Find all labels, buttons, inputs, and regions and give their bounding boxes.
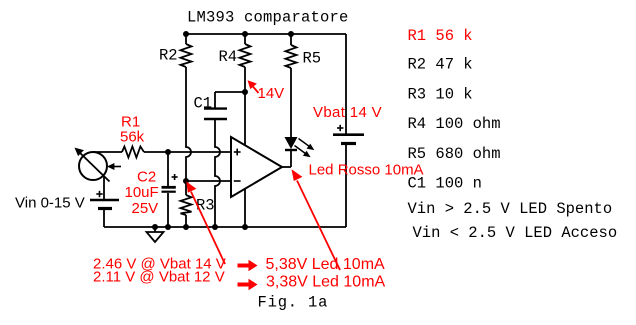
svg-text:R3: R3 (196, 197, 215, 215)
svg-text:R4 100 ohm: R4 100 ohm (408, 115, 501, 133)
wire divider node to R3 (185, 181, 187, 195)
wire R1 right to op-amp plus input (144, 151, 231, 153)
svg-text:R4: R4 (219, 48, 238, 66)
battery B1 Vin (90, 191, 119, 209)
battery B2 Vbat 14V (333, 125, 364, 144)
wire R2 bottom with hop over + input wire (186, 67, 191, 181)
svg-text:Vin 0-15 V: Vin 0-15 V (15, 195, 85, 212)
wire 14V node left to C1 (215, 91, 245, 93)
op-amp plus input marker (234, 151, 241, 153)
label 14V red with arrow to 14V node (248, 80, 285, 102)
resistor R3 10k vertical (181, 195, 192, 215)
wire R5 top to rail (290, 34, 292, 45)
wire LED cathode to op-amp output (290, 150, 292, 167)
resistor R2 47k vertical (181, 44, 192, 67)
svg-text:C1 100 n: C1 100 n (408, 175, 482, 193)
wire top supply rail (186, 33, 346, 35)
wire C1 bottom to ground rail with hops over both input wires (215, 120, 220, 227)
wire right branch down to Vbat battery (345, 34, 347, 134)
node junction dot R3 bottom on rail (183, 224, 189, 230)
red result arrow line 1 (238, 260, 258, 271)
wire op-amp output to LED (282, 166, 291, 168)
node junction dot C2 bottom on rail (165, 224, 171, 230)
svg-text:LM393 comparatore: LM393 comparatore (187, 9, 349, 27)
wire source to battery Vin (103, 177, 105, 200)
svg-text:R3 10 k: R3 10 k (408, 85, 473, 103)
wire op-amp V- pin to ground rail (244, 189, 246, 227)
svg-text:Led Rosso 10mA: Led Rosso 10mA (309, 162, 424, 179)
svg-text:R5 680 ohm: R5 680 ohm (408, 145, 501, 163)
node junction dot top of R2 (183, 31, 189, 37)
svg-text:25V: 25V (132, 200, 159, 217)
wire R3 bottom to ground rail (185, 215, 187, 227)
node junction dot ground symbol on rail (152, 224, 158, 230)
svg-text:R2: R2 (159, 47, 178, 65)
svg-text:C2: C2 (137, 169, 156, 186)
resistor R5 680ohm vertical (286, 45, 297, 68)
wire R4 top to rail (244, 34, 246, 44)
svg-text:3,38V Led 10mA: 3,38V Led 10mA (266, 274, 386, 291)
red annotation arrow to divider node (186, 182, 225, 265)
node junction dot top of R5 (288, 31, 294, 37)
wire non-inverting input from R1 node to op-amp (93, 151, 122, 153)
node junction dot C1 bottom on rail (212, 224, 218, 230)
op-amp minus input marker (234, 180, 241, 182)
wire R2 top to rail (185, 34, 187, 44)
capacitor C2 10uF electrolytic (162, 152, 178, 227)
svg-text:R5: R5 (303, 50, 322, 68)
svg-text:Fig. 1a: Fig. 1a (258, 294, 329, 312)
wire battery Vin minus to bottom rail (103, 209, 105, 228)
svg-text:2.11 V @ Vbat 12 V: 2.11 V @ Vbat 12 V (93, 269, 225, 286)
node junction dot minus input / R2-R3 divider (183, 178, 189, 184)
svg-text:Vin < 2.5 V LED Acceso: Vin < 2.5 V LED Acceso (413, 224, 618, 242)
svg-text:C1: C1 (194, 95, 213, 113)
resistor R4 100ohm vertical (240, 44, 251, 67)
LED D1 red (285, 137, 298, 150)
source V1 variable 0-15V circle (79, 152, 107, 180)
wire from Vbat minus down to bottom rail (345, 144, 347, 228)
node junction dot C2 top (165, 149, 171, 155)
source wiper arrow pointing left (107, 163, 121, 170)
wire R5 bottom to LED anode (290, 68, 292, 137)
wire R4 bottom to 14V node (244, 67, 246, 92)
svg-text:10uF: 10uF (125, 184, 159, 201)
node junction dot op-amp V- on rail (242, 224, 248, 230)
svg-text:R1 56 k: R1 56 k (408, 27, 473, 45)
svg-text:5,38V Led 10mA: 5,38V Led 10mA (266, 256, 386, 273)
svg-text:R2 47 k: R2 47 k (408, 56, 473, 74)
red annotation arrow to op-amp output node (292, 169, 341, 270)
wire 14V node to op-amp V+ pin (244, 92, 246, 146)
node 14V junction dot (242, 89, 248, 95)
ground symbol (147, 227, 164, 242)
capacitor C1 100n (204, 92, 227, 119)
svg-text:56k: 56k (120, 129, 145, 146)
source diagonal adjustment arrow (75, 148, 110, 182)
red result arrow line 2 (238, 279, 258, 290)
resistor R1 56k horizontal (122, 147, 144, 158)
svg-text:Vbat 14 V: Vbat 14 V (313, 104, 382, 121)
svg-text:14V: 14V (258, 85, 285, 102)
node junction dot top of R4 (242, 31, 248, 37)
wire inverting input from divider to op-amp with hop over C1 wire (186, 180, 231, 182)
op-amp U1 LM393 (231, 137, 282, 197)
wire bottom ground rail (104, 226, 346, 228)
svg-text:Vin > 2.5 V LED Spento: Vin > 2.5 V LED Spento (408, 200, 613, 218)
component list right column (408, 27, 618, 242)
LED light emission arrows (295, 139, 315, 158)
